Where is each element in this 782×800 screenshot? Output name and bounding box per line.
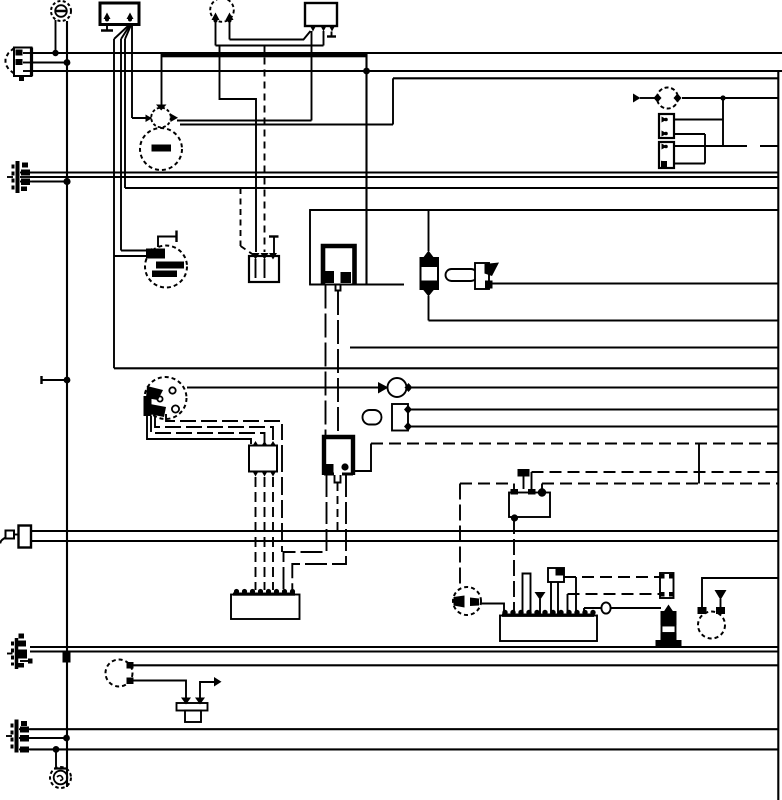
wire fan from B1 pin [114,25,131,39]
node junction x67 y62.5 [64,59,71,66]
wire drop to strip x282 [281,454,283,552]
wire fuel gauge bottom y426.5 [411,425,778,427]
junction block JB [249,441,277,477]
wire bundle x121 [120,39,122,251]
wire flasher output y387.5 [412,386,778,388]
wire lower bus 1 y729.2 [30,728,778,730]
ground stub of B3 [327,32,336,37]
wire fuse1 top y119 [674,119,723,121]
connector strip ST [231,589,300,619]
wire headlamp stub y181.5 [32,180,67,182]
terminal of regulator [158,231,177,248]
node junction x366.5 y71 [363,68,370,75]
wire fuse2 top continuation y146 [760,145,778,147]
wire dashed interior lamp 2 y594 [568,593,661,595]
wire RL2 right drop [292,475,346,591]
node junction x56 y749.4 [53,746,60,753]
wire bundle x114 [113,39,115,368]
wire connector feed 1 y531 [31,530,778,532]
wire horn2 left riser [702,578,778,607]
wire ammeter feed y78 [393,77,778,79]
wire relay output y347.5 [350,346,778,348]
wire right border x778 [777,71,779,800]
ground stub of B1 [101,25,113,31]
wire distributor leads staircase [147,414,282,454]
wire dynamo bus y368.3 [114,367,778,369]
wire headlamp main y71 [32,70,782,72]
lamp L2 tail lamp [7,634,33,670]
wire connector feed 2 y541 [31,540,778,542]
wire distributor to flasher y387.5 [187,386,378,388]
wire ammeter top lead x161.5 [161,53,163,105]
lamp HL1 left headlamp upper [7,161,32,193]
wire ammeter out 2 y124.5 [180,124,393,126]
relay HR horn relay [509,488,550,521]
wire RL1 U drop x338 [337,291,339,437]
wire riser to dashed lamp line x567.5 [567,594,569,615]
terminal U of RL1 [336,284,341,291]
wire HR pin3 riser [541,484,543,490]
wire dashed wiper feed y483.5 left [460,482,514,484]
wire riser x393 [392,78,394,124]
terminal stub on trunk y380 [42,376,68,384]
wire left trunk x67 [66,21,68,787]
wire U loop riser on ST2 [523,574,531,616]
fuel gauge sender FS [363,404,413,431]
wire parallel feed y56 [162,55,367,57]
switch SB small panel switch [548,568,565,616]
terminal arrow of horn2 [715,590,727,607]
wire lower bus 2 y749.4 [30,748,778,750]
terminal of coil [269,237,279,254]
wire RL2 right to dash bus [353,444,371,472]
wire sidelamp branch y62.5 [32,61,67,63]
fuse F2 cartridge [656,605,682,647]
wire regulator feed 2 y256 [114,255,146,257]
switch SW1 ignition [446,263,500,290]
wire dashed flasher relay feed y443.5 [371,442,778,444]
lamp L4 number plate lamp [50,749,71,788]
terminal flag of HR [518,469,530,489]
horn HN1 [633,88,682,109]
switch box B1 lighting switch [100,3,139,25]
wire fuse F1 top lead x428.5 [428,210,430,251]
wire regulator feed 1 y250.5 [121,250,146,252]
wire oval line y608 [584,607,661,609]
wire panel lamp bus y665.3 [133,664,778,666]
fuse FS1 upper [659,114,674,138]
wire tail bus 2 y651.5 [30,650,778,652]
wire HR pin2 riser [531,472,533,489]
wire HL2 middle pin y738 [30,737,67,739]
lamp L1 top sidelamp [51,1,71,21]
wire merged thick band 161-367 [162,52,367,57]
wire relay loop top y210 [310,209,778,211]
wire horn feed y98 [682,97,778,99]
wire bundle x125 [124,39,126,188]
battery BAT [140,128,182,170]
node junction x67 y380 [64,377,71,384]
lamp B2 double filament bulb [210,0,234,23]
wire fuse link x705 [704,134,706,164]
switch SW2 dip switch [177,698,208,723]
wire bus C y188 [125,187,778,189]
wire HR bottom drop to strip [513,518,515,615]
wire dashed interior lamp 1 y577 [564,576,660,578]
wire dashed horn relay wire y472 [532,471,779,473]
wire bundle x132 [131,25,133,119]
wire relay right side x366.5 [365,53,367,285]
wire drop dashed x264.5 [264,46,266,253]
wire fuse output y320.5 [429,319,779,321]
lamp L0 front sidelamp left [6,48,32,82]
wire RL2 U drop [337,483,339,531]
wire riser to oval line x584 [583,608,585,615]
wire link y39.5 [230,31,311,40]
wire fuel gauge top y409.5 [411,408,778,410]
wire RL2 left drop [284,475,327,591]
regulator REG control box [145,246,187,288]
wire fuse2 top y146 [674,145,747,147]
lamp L3 panel bulb [106,660,134,687]
relay RL1 starter solenoid [310,210,367,285]
wire ammeter out 1 y120.5 [177,120,312,122]
wire link y45.5 [216,45,324,47]
wire sidelamp lead left x55.5 [55,20,57,53]
wire ammeter left lead y118 [132,117,152,119]
wire SW2 arrow lead [200,682,214,698]
terminal arrow right [214,677,222,687]
node junction x723 y98 [720,95,725,100]
wire tail bus 1 y647 [30,646,778,648]
wire wiper out y603.5 [481,604,504,616]
coil C1 [249,253,279,282]
node junction x66.5 y738 [63,735,70,742]
relay RL2 flasher unit [324,437,353,475]
wire bulb lead right x229.5 [229,22,231,40]
wire drop x219.5 [220,46,257,253]
wire bus A y172.5 [30,171,778,173]
wire riser to dashed lamp line 2 x576 [575,577,577,614]
connector LC cable end [0,526,31,548]
wire bulb lead left x215.5 [215,22,217,46]
wire RL1 to RL2 left x325.5 [325,285,327,438]
connector strip ST2 [500,610,597,641]
wire main feed top y53 [30,52,782,54]
wire drop x723 [722,98,724,146]
wire ignition switch output y283.5 [492,282,778,284]
node junction blob x67 y657 [63,652,71,663]
wire relay loop bottom y284 [310,283,404,285]
box B3 fuse holder top [305,3,337,32]
wire dashed drop x240.5 to coil [241,188,254,255]
lamp HL2 left headlamp lower [6,720,30,753]
fuse FS2 lower [659,142,674,168]
motor WM wiper motor [453,587,481,615]
wire dashed horn relay out y483.5 right [542,482,778,484]
connector CN 4 pin [660,573,674,598]
horn HN2 [698,607,726,639]
terminal arrow stub on ST2 [535,592,546,615]
wire HR pin1 drop [513,484,515,490]
connector oval inline [601,602,610,613]
flasher FL [378,378,413,397]
distributor DIST [144,377,187,419]
wire riser x311.5 [311,31,313,121]
wire dash bus drop x699 [698,444,700,484]
wire wiper feed drop x460 [459,484,461,588]
terminal U of RL2 [335,475,341,483]
wire JB drops dashed [256,477,274,590]
node junction sidelamp on y53 [52,50,58,56]
wire fuse F1 bottom lead x428.5 [428,296,430,321]
wire fuse2 bottom y163.5 [674,163,705,165]
node junction x67 y181.5 [63,178,70,185]
wire bus B y177 [30,176,778,178]
wire fuse1 bottom y134 [674,133,705,135]
wire riser x323.5 [323,31,325,46]
wire L3 lower lead y680.5 [133,681,186,698]
fuse F1 inline [421,251,439,297]
ammeter A1 [146,105,179,128]
